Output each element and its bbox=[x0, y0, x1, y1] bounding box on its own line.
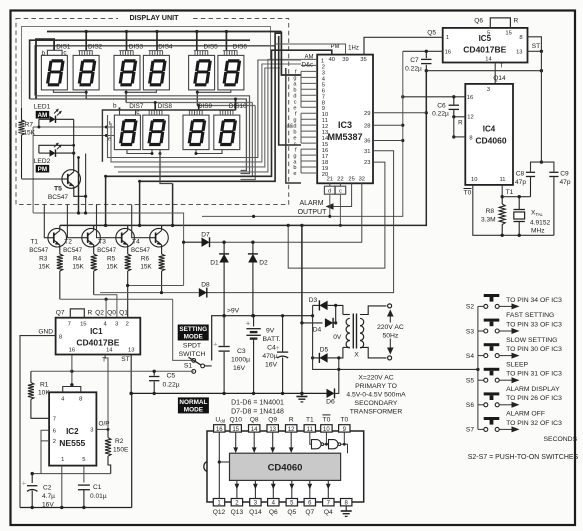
svg-text:IC1: IC1 bbox=[90, 327, 103, 336]
wire IC5 pin16 rail bbox=[403, 50, 443, 52]
wire row2 bus5 thick bbox=[106, 50, 332, 176]
svg-text:DIS7: DIS7 bbox=[129, 103, 144, 110]
svg-text:Q6: Q6 bbox=[474, 17, 483, 24]
svg-text:TO PIN 31 OF IC3: TO PIN 31 OF IC3 bbox=[506, 371, 562, 378]
wire rail up right bbox=[131, 393, 133, 507]
svg-text:D&c: D&c bbox=[302, 62, 313, 68]
wire base T4 bbox=[132, 205, 150, 238]
svg-text:1Hz: 1Hz bbox=[348, 46, 359, 52]
svg-text:CD4017BE: CD4017BE bbox=[463, 45, 506, 55]
svg-text:>9V: >9V bbox=[227, 308, 240, 315]
svg-text:9V: 9V bbox=[266, 327, 275, 334]
svg-text:CD4060: CD4060 bbox=[475, 136, 506, 146]
svg-text:ST: ST bbox=[532, 43, 540, 50]
node bbox=[85, 91, 88, 94]
svg-text:S3: S3 bbox=[466, 328, 474, 335]
svg-text:b: b bbox=[113, 103, 117, 110]
svg-text:14: 14 bbox=[106, 348, 113, 354]
wire select drop bbox=[156, 32, 158, 51]
svg-text:SETTING: SETTING bbox=[179, 326, 207, 333]
IC CD4060 pinout block outline bbox=[204, 431, 364, 502]
svg-text:C6: C6 bbox=[437, 102, 446, 109]
wire pin internal bottom bbox=[309, 480, 311, 498]
gate G2 bbox=[329, 440, 341, 449]
IC IC3 MM5387 bbox=[317, 55, 373, 184]
svg-text:32: 32 bbox=[359, 177, 365, 183]
node bbox=[425, 111, 428, 114]
wire gate2 out bbox=[341, 444, 348, 453]
SETTING MODE box bbox=[178, 325, 209, 341]
svg-text:ALARM: ALARM bbox=[299, 200, 323, 207]
wire arrow bbox=[500, 404, 514, 406]
wire IC2 pins 6-2 bbox=[41, 430, 49, 441]
svg-text:TRANSFORMER: TRANSFORMER bbox=[350, 409, 403, 416]
wire arrow bbox=[500, 305, 514, 307]
svg-text:Q0: Q0 bbox=[107, 310, 116, 317]
svg-text:D8: D8 bbox=[201, 282, 210, 289]
svg-text:MODE: MODE bbox=[184, 407, 204, 414]
wire 555 out up bbox=[105, 355, 108, 430]
svg-text:31: 31 bbox=[364, 149, 370, 155]
wire D3-D4 link bbox=[335, 305, 337, 323]
svg-text:S1: S1 bbox=[184, 363, 193, 370]
svg-text:Q1: Q1 bbox=[119, 310, 128, 317]
svg-text:7: 7 bbox=[68, 322, 71, 328]
wire common drops to transistor area bbox=[105, 176, 107, 225]
svg-text:+: + bbox=[275, 343, 280, 352]
svg-text:+: + bbox=[246, 320, 250, 327]
wire pin internal bbox=[290, 432, 292, 450]
IC IC1 CD4017BE bbox=[56, 318, 141, 355]
wire arrow bbox=[500, 428, 514, 430]
transistor T4 bbox=[150, 228, 169, 247]
svg-text:21: 21 bbox=[327, 177, 333, 183]
wire arrow bbox=[500, 330, 514, 332]
svg-text:DIS4: DIS4 bbox=[158, 44, 173, 51]
svg-text:C1: C1 bbox=[93, 484, 102, 491]
ground symbol bbox=[301, 393, 303, 396]
button S4 bbox=[484, 343, 500, 351]
transistor T2 bbox=[82, 228, 101, 247]
wire 473 link bbox=[32, 473, 111, 475]
wire D7 left bbox=[183, 213, 185, 286]
pin box 9 bbox=[339, 425, 350, 432]
switch S5 bbox=[478, 378, 499, 382]
svg-text:R: R bbox=[88, 310, 93, 317]
pin box 14 bbox=[249, 425, 260, 432]
capacitor C3 bbox=[223, 316, 225, 346]
svg-text:36: 36 bbox=[364, 139, 370, 145]
svg-text:OUTPUT: OUTPUT bbox=[298, 209, 328, 216]
LED LED2 bbox=[39, 143, 74, 157]
svg-text:ALARM DISPLAY: ALARM DISPLAY bbox=[506, 386, 560, 393]
svg-text:Q13: Q13 bbox=[231, 509, 244, 516]
wire select drop row2 bbox=[235, 99, 237, 110]
wire pin internal bbox=[235, 432, 237, 450]
diode D2 bbox=[252, 242, 254, 254]
diode D7 bbox=[184, 241, 202, 243]
wire D3 node bbox=[336, 305, 343, 314]
node bbox=[151, 152, 154, 155]
svg-text:Q5: Q5 bbox=[427, 30, 436, 37]
svg-text:4.9152: 4.9152 bbox=[530, 220, 551, 227]
wire IC3 pin23 bbox=[288, 162, 385, 268]
IC IC4 CD4060 bbox=[465, 84, 513, 185]
pin box DIS7 bbox=[120, 110, 136, 115]
wire segment-f feed bbox=[33, 126, 114, 128]
svg-text:T4: T4 bbox=[132, 239, 140, 246]
svg-text:470µ: 470µ bbox=[262, 353, 277, 360]
wire row2 bus1 bbox=[108, 60, 302, 158]
svg-text:AM: AM bbox=[38, 112, 48, 119]
svg-text:Q2: Q2 bbox=[95, 310, 104, 317]
svg-text:D1-D6 = 1N4001: D1-D6 = 1N4001 bbox=[231, 400, 284, 407]
svg-text:0.22µ: 0.22µ bbox=[163, 381, 180, 388]
wire GND IC1 bbox=[20, 336, 56, 508]
wire select drop bbox=[126, 32, 128, 51]
node bbox=[425, 69, 428, 72]
svg-text:TO PIN 34 OF IC3: TO PIN 34 OF IC3 bbox=[506, 297, 562, 304]
svg-text:+: + bbox=[213, 339, 218, 348]
svg-text:39: 39 bbox=[342, 57, 348, 63]
display unit dashed enclosure bbox=[16, 13, 289, 205]
svg-text:2: 2 bbox=[53, 439, 56, 445]
wire DIS5-DIS6 bottom bbox=[197, 90, 231, 92]
svg-text:IC4: IC4 bbox=[483, 125, 496, 134]
svg-text:16V: 16V bbox=[265, 361, 278, 368]
wire IC5 pin8 bbox=[528, 37, 542, 52]
wire IC3 pin21 d bbox=[329, 183, 331, 186]
wire D8 line bbox=[100, 292, 199, 294]
wire D5 node to coil bbox=[339, 347, 343, 358]
svg-text:Q7: Q7 bbox=[56, 310, 65, 317]
wire select drop bbox=[225, 32, 227, 51]
capacitor C5 bbox=[153, 371, 155, 375]
wire pin16 net bbox=[31, 370, 194, 372]
svg-text:LED1: LED1 bbox=[34, 103, 51, 110]
wire IC1 pin14 bbox=[104, 355, 106, 361]
wire IC3 pin36 bbox=[373, 140, 403, 142]
svg-text:DIS9: DIS9 bbox=[198, 103, 213, 110]
wire top thin rail bbox=[22, 27, 271, 123]
wire segment-e feed bbox=[33, 135, 114, 137]
svg-text:Q9: Q9 bbox=[268, 416, 277, 423]
switch S1 SPDT bbox=[189, 357, 212, 373]
wire 39 stub bbox=[275, 44, 345, 55]
diode D6 bbox=[327, 389, 335, 398]
wire row2 bus2 bbox=[111, 64, 301, 162]
display DIS8 bbox=[143, 110, 169, 149]
wire pin internal bottom bbox=[254, 480, 256, 498]
resistor R6 bbox=[161, 247, 163, 254]
button S7 bbox=[484, 417, 500, 425]
wire supply y242 bbox=[222, 241, 225, 244]
resistor R3 bbox=[59, 247, 61, 254]
wire T1 collector bbox=[59, 225, 61, 228]
svg-text:SECONDARY: SECONDARY bbox=[355, 400, 398, 407]
display DIS7 bbox=[114, 115, 140, 150]
svg-text:SECONDS: SECONDS bbox=[544, 436, 578, 443]
svg-text:C2: C2 bbox=[43, 485, 52, 492]
display DIS10 bbox=[214, 110, 240, 149]
svg-text:D7: D7 bbox=[201, 232, 210, 239]
svg-text:MHz: MHz bbox=[531, 228, 545, 235]
wire IC4 pin8 bbox=[454, 136, 466, 138]
svg-text:TO PIN 32 OF IC3: TO PIN 32 OF IC3 bbox=[506, 420, 562, 427]
svg-text:13: 13 bbox=[128, 348, 134, 354]
svg-text:12: 12 bbox=[288, 427, 295, 433]
wire thin rail y213 bbox=[33, 212, 184, 214]
svg-text:C3: C3 bbox=[237, 348, 246, 355]
svg-text:ALARM OFF: ALARM OFF bbox=[506, 411, 545, 418]
terminal bottom bbox=[388, 356, 392, 360]
wire L2 thick from C7 bbox=[60, 71, 426, 226]
node bbox=[328, 215, 331, 218]
wire base T3 bbox=[97, 205, 116, 238]
svg-text:S4: S4 bbox=[466, 353, 474, 360]
transistor T1 bbox=[48, 228, 67, 247]
svg-text:NORMAL: NORMAL bbox=[179, 399, 207, 406]
wire IC4 pin10 T0 bbox=[473, 185, 554, 235]
svg-text:SLEEP: SLEEP bbox=[506, 361, 528, 368]
terminal top bbox=[388, 304, 392, 308]
pin box 1 bbox=[213, 499, 224, 506]
pin box 5 bbox=[286, 499, 297, 506]
svg-text:S7: S7 bbox=[466, 427, 474, 434]
wire T2 collector bbox=[93, 225, 95, 228]
capacitor C9 bbox=[549, 171, 558, 173]
wire pin internal bottom bbox=[327, 480, 329, 498]
transformer X bbox=[343, 306, 387, 358]
AM box bbox=[36, 111, 50, 119]
svg-text:5: 5 bbox=[82, 457, 85, 463]
svg-text:DIS8: DIS8 bbox=[158, 103, 173, 110]
pin box 11 bbox=[304, 425, 315, 432]
svg-text:220V AC: 220V AC bbox=[377, 324, 404, 331]
wire select drop bbox=[196, 32, 198, 51]
wire C6 branch bbox=[453, 117, 455, 137]
svg-text:D4: D4 bbox=[313, 327, 322, 334]
wire T5 base bbox=[22, 178, 62, 180]
display DIS2 bbox=[73, 51, 99, 90]
wire T5 emitter bbox=[74, 188, 86, 196]
svg-text:Q14: Q14 bbox=[493, 75, 506, 82]
svg-text:16V: 16V bbox=[233, 365, 246, 372]
wire switch bus bbox=[477, 306, 479, 429]
svg-text:16: 16 bbox=[445, 49, 451, 55]
svg-text:BC547: BC547 bbox=[97, 247, 116, 254]
display DIS6 bbox=[218, 51, 244, 90]
wire C2 up bbox=[31, 474, 33, 483]
svg-text:AM: AM bbox=[305, 55, 314, 61]
resistor R4 bbox=[93, 247, 95, 254]
svg-text:T: T bbox=[499, 63, 503, 70]
svg-text:TO PIN 33 OF IC3: TO PIN 33 OF IC3 bbox=[506, 321, 562, 328]
svg-text:Q6: Q6 bbox=[269, 509, 278, 516]
svg-text:T0: T0 bbox=[323, 416, 331, 423]
wire pin internal bottom bbox=[291, 480, 293, 498]
capacitor C1 bbox=[83, 466, 85, 483]
node bbox=[196, 91, 199, 94]
svg-text:DISPLAY UNIT: DISPLAY UNIT bbox=[129, 13, 179, 22]
wire LED1 left bbox=[38, 119, 40, 127]
wire row2 bus4 bbox=[118, 59, 301, 171]
svg-text:TAL: TAL bbox=[536, 212, 544, 217]
wire row1 outer bus loop bbox=[30, 40, 250, 99]
wire select drop bbox=[85, 32, 87, 51]
wire bbox=[85, 92, 87, 99]
svg-text:R7: R7 bbox=[25, 121, 34, 128]
svg-text:16: 16 bbox=[467, 95, 473, 101]
wire bottom rail bbox=[20, 507, 132, 509]
wire pin16 internal bbox=[218, 432, 220, 498]
svg-text:e: e bbox=[293, 171, 296, 177]
wire IC3 pin28 bbox=[373, 124, 403, 126]
wire bbox=[125, 92, 127, 102]
button S3 bbox=[484, 319, 500, 327]
button S6 bbox=[484, 392, 500, 400]
svg-text:DIS6: DIS6 bbox=[233, 44, 248, 51]
wire IC1 pin16 bbox=[71, 355, 73, 385]
svg-text:0.01µ: 0.01µ bbox=[90, 493, 107, 500]
wire T4 collector bbox=[161, 225, 163, 228]
wire R3 to pin4 and S1 bbox=[60, 298, 173, 300]
switch S6 bbox=[478, 403, 499, 407]
wire IC2 pin3 O/P bbox=[96, 428, 108, 430]
node bbox=[125, 91, 128, 94]
svg-text:T1: T1 bbox=[30, 239, 38, 246]
svg-text:15: 15 bbox=[232, 427, 239, 433]
wire row2 bus3 bbox=[114, 68, 280, 167]
svg-text:15: 15 bbox=[505, 30, 511, 36]
battery 9V bbox=[246, 314, 261, 395]
wire left loop bbox=[32, 127, 34, 213]
NORMAL MODE box bbox=[178, 397, 209, 413]
svg-text:47p: 47p bbox=[559, 179, 570, 186]
svg-text:8: 8 bbox=[79, 397, 82, 403]
wire 9V rail bbox=[212, 316, 313, 361]
svg-text:13: 13 bbox=[516, 49, 522, 55]
switch S2 bbox=[478, 304, 499, 308]
svg-text:MM5387: MM5387 bbox=[327, 132, 362, 142]
svg-text:Q14: Q14 bbox=[249, 509, 262, 516]
svg-text:R4: R4 bbox=[73, 256, 82, 263]
wire rect vertical bbox=[313, 305, 478, 369]
switch S4 bbox=[478, 354, 499, 358]
wire T rail bbox=[426, 70, 541, 72]
svg-text:DIS1: DIS1 bbox=[56, 44, 71, 51]
svg-text:D7-D8 = 1N4148: D7-D8 = 1N4148 bbox=[231, 409, 284, 416]
wire top thick select bus bbox=[47, 31, 281, 33]
svg-text:Q4: Q4 bbox=[324, 509, 333, 516]
wire pin internal bbox=[253, 432, 255, 450]
wire pin internal bottom bbox=[272, 480, 274, 498]
capacitor C6 bbox=[453, 97, 455, 105]
svg-text:35: 35 bbox=[360, 57, 366, 63]
svg-text:TO PIN 30 OF IC3: TO PIN 30 OF IC3 bbox=[506, 346, 562, 353]
switch S7 bbox=[478, 427, 499, 431]
svg-text:T1: T1 bbox=[506, 189, 514, 196]
svg-text:T0: T0 bbox=[340, 416, 348, 423]
svg-text:CD4017BE: CD4017BE bbox=[76, 338, 119, 348]
wire to C9 bbox=[541, 162, 554, 172]
display DIS3 bbox=[114, 51, 140, 90]
svg-text:28: 28 bbox=[364, 123, 370, 129]
resistor R8 bbox=[501, 197, 503, 204]
wire bbox=[159, 150, 161, 154]
svg-text:4.7µ: 4.7µ bbox=[42, 493, 55, 500]
wire T5 emitter drop bbox=[85, 154, 87, 214]
svg-text:dd: dd bbox=[220, 419, 225, 424]
wire pin internal bbox=[272, 432, 274, 450]
svg-text:15K: 15K bbox=[72, 264, 84, 271]
svg-text:ST: ST bbox=[121, 356, 129, 363]
svg-text:SPDT: SPDT bbox=[183, 343, 201, 350]
pin box 8 bbox=[341, 499, 352, 506]
svg-text:S2: S2 bbox=[466, 304, 474, 311]
wire DIS9-DIS10 bottom bbox=[196, 150, 222, 154]
svg-text:BC547: BC547 bbox=[48, 194, 68, 201]
svg-text:8: 8 bbox=[59, 335, 62, 341]
svg-text:6: 6 bbox=[53, 428, 56, 434]
svg-text:S2-S7 = PUSH-TO-ON SWITCHES: S2-S7 = PUSH-TO-ON SWITCHES bbox=[468, 454, 579, 461]
capacitor C7 bbox=[425, 51, 427, 58]
svg-text:R3: R3 bbox=[39, 256, 48, 263]
display DIS1 bbox=[41, 55, 67, 90]
svg-text:3.3M: 3.3M bbox=[481, 217, 496, 224]
wire pin4 drop bbox=[105, 299, 107, 318]
svg-text:Q8: Q8 bbox=[250, 416, 259, 423]
jumper Q6-R box bbox=[490, 18, 510, 28]
jumper Q7-R box bbox=[70, 309, 84, 318]
diode D5 bbox=[313, 357, 320, 359]
svg-text:R: R bbox=[289, 416, 294, 423]
wire PM stub bbox=[331, 50, 333, 54]
pin box 10 bbox=[321, 425, 332, 432]
wire row2 outer loop bbox=[102, 110, 235, 162]
ground symbol bbox=[341, 510, 352, 512]
svg-text:1: 1 bbox=[61, 457, 64, 463]
wire base T2 bbox=[67, 205, 81, 238]
display DIS5 bbox=[189, 51, 215, 90]
svg-text:R: R bbox=[458, 119, 463, 126]
pin box 13 bbox=[267, 425, 278, 432]
svg-text:IC2: IC2 bbox=[66, 427, 79, 436]
wire IC5-IC4 right drop bbox=[540, 51, 542, 162]
wire R4 to pin3 bbox=[94, 295, 117, 318]
wire S1 top feed bbox=[173, 299, 192, 360]
wire bus u3 bbox=[125, 98, 127, 100]
wire arrow bbox=[500, 355, 514, 357]
wire R5-D7 link bbox=[128, 285, 184, 287]
svg-text:C5: C5 bbox=[167, 372, 176, 379]
svg-text:R8: R8 bbox=[486, 208, 495, 215]
CD4060 inner gray box bbox=[230, 453, 341, 480]
wire base T1 bbox=[44, 205, 48, 238]
IC IC2 NE555 bbox=[49, 392, 96, 465]
svg-text:C8: C8 bbox=[516, 170, 525, 177]
svg-text:C4: C4 bbox=[267, 344, 276, 351]
pin box 7 bbox=[323, 499, 334, 506]
svg-text:T1: T1 bbox=[306, 416, 314, 423]
svg-text:25: 25 bbox=[348, 177, 354, 183]
wire display common down bbox=[301, 225, 303, 323]
svg-text:0V: 0V bbox=[333, 334, 342, 341]
svg-text:Q5: Q5 bbox=[287, 509, 296, 516]
wire pin11 to gate bbox=[310, 432, 312, 444]
wire IC4 pin11 bbox=[501, 185, 503, 197]
wire bundle thick B bbox=[279, 36, 301, 145]
